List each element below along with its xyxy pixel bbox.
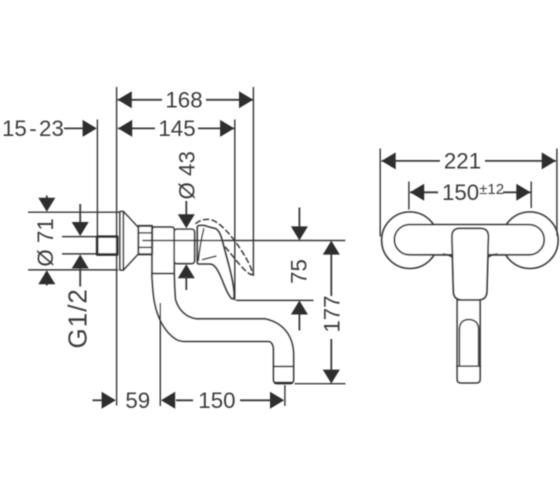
dimension line dia43 <box>185 201 187 217</box>
arrow 177 down <box>323 370 340 384</box>
dimension line 221 <box>382 160 441 162</box>
svg-text:75: 75 <box>287 259 312 284</box>
extension line 177 bottom <box>295 383 346 385</box>
escutcheon circle right <box>502 212 558 268</box>
extension line wall anchor <box>96 120 98 237</box>
fillet left <box>444 254 453 257</box>
extension line G12 bottom <box>62 253 97 255</box>
faucet side view <box>97 211 293 383</box>
extension line dia71 top <box>28 211 122 213</box>
dimension line 145 <box>118 127 155 129</box>
aerator line front <box>457 365 481 367</box>
fillet right <box>488 254 497 257</box>
front view <box>382 212 558 383</box>
dimension line G12 stems <box>79 204 81 225</box>
extension line 221 left <box>379 149 381 237</box>
escutcheon circle left <box>382 212 438 268</box>
spout aerator line <box>274 365 294 367</box>
extension line 221 right <box>556 149 558 237</box>
extension line 75 bottom <box>236 299 314 301</box>
dimension line 177 <box>330 253 332 297</box>
arrow 168 left <box>118 91 132 108</box>
arrow G12 down <box>72 222 89 236</box>
arrow 150 right <box>270 392 284 409</box>
extension line datum wall <box>116 87 118 406</box>
arrow 75 down <box>291 226 308 240</box>
handle front <box>452 228 489 300</box>
dimension line dia71 stems <box>46 196 48 202</box>
extension line 150 right <box>284 385 286 406</box>
body section B <box>174 229 195 263</box>
arrow 75 up <box>291 301 308 315</box>
escutcheon cone <box>123 211 138 270</box>
tube inner arch <box>459 320 478 365</box>
dimension line 150 <box>176 399 193 401</box>
dimension line 168 <box>118 99 162 101</box>
arrow 59 <box>102 392 116 409</box>
arrow dia71 up <box>38 270 55 284</box>
svg-text:Ø 71: Ø 71 <box>33 218 58 266</box>
body capsule <box>394 225 544 255</box>
body section A <box>152 227 174 273</box>
escutcheon back plate <box>120 211 123 270</box>
spout tube front <box>457 300 480 383</box>
dimension line 59 <box>93 399 102 401</box>
handle lever solid <box>197 225 234 299</box>
svg-text:145: 145 <box>158 116 195 141</box>
arrow 221 left <box>382 152 396 169</box>
handle inner line <box>203 256 217 260</box>
svg-text:59: 59 <box>125 388 150 413</box>
dimension line 75 stems <box>298 208 300 229</box>
arrow 145 right <box>220 120 234 137</box>
arrow 221 right <box>542 152 556 169</box>
extension line 59 right through spout <box>159 303 161 406</box>
dimension texts side view <box>2 87 345 413</box>
arrow 150pm left <box>410 184 424 201</box>
handle collar arc <box>198 229 203 261</box>
svg-text:150: 150 <box>198 388 235 413</box>
spout pipe <box>152 274 294 384</box>
svg-text:221: 221 <box>444 148 481 173</box>
svg-text:G1/2: G1/2 <box>63 288 93 348</box>
arrow 150 left <box>161 392 175 409</box>
arrow 150pm right <box>516 184 530 201</box>
cartridge stack <box>138 226 152 254</box>
extension line 150pm right <box>530 182 532 209</box>
arrowheads side view <box>38 91 340 409</box>
extension line G12 top <box>62 236 97 238</box>
dimension line 150pm <box>410 191 438 193</box>
dashed handle open position <box>196 219 252 274</box>
arrow G12 up <box>72 255 89 269</box>
svg-text:177: 177 <box>320 295 345 332</box>
arrow 168 right <box>239 91 253 108</box>
extension line 145 right <box>234 120 236 301</box>
extension line 150pm left <box>408 182 410 210</box>
extension line dia71 bottom <box>28 269 118 271</box>
wall nipple G12 <box>97 237 117 255</box>
dimension line 15-23 <box>64 127 90 129</box>
svg-text:15-23: 15-23 <box>2 116 64 141</box>
arrow 177 up <box>323 241 340 255</box>
svg-text:Ø 43: Ø 43 <box>175 151 200 199</box>
arrow dia71 down <box>38 198 55 212</box>
arrow dia43 up <box>178 264 195 278</box>
extension line 168 right <box>252 87 254 276</box>
centerline <box>142 240 345 242</box>
arrow 15-23 <box>83 120 97 137</box>
svg-text:168: 168 <box>165 87 202 112</box>
arrow dia43 down <box>178 214 195 228</box>
arrow 145 left <box>118 120 132 137</box>
